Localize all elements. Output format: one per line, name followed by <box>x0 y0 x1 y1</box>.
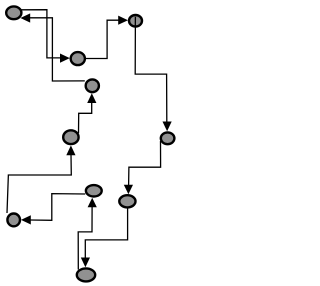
arrowhead into N5 <box>66 145 75 155</box>
arrowhead into N8 <box>124 185 133 194</box>
node N2 <box>129 15 142 27</box>
arrowhead into N2 <box>118 16 128 25</box>
node N9 <box>7 214 20 227</box>
node N6 <box>161 132 175 144</box>
node N8 <box>119 195 135 207</box>
wire edge N4->N1 <box>30 18 85 81</box>
wire edge N1->N3 <box>21 10 60 58</box>
arrowhead into N4 <box>87 93 96 103</box>
arrowhead into N11 <box>81 258 90 268</box>
arrowhead into N7 <box>88 198 97 208</box>
node N7 <box>86 185 102 196</box>
wire edge N5->N4 <box>79 103 92 134</box>
arrowhead into N6 <box>163 122 172 132</box>
arrowhead into N1 <box>20 13 30 22</box>
wire edge N7->N9 <box>31 194 86 221</box>
arrowhead into N9 <box>21 215 31 224</box>
wire edge N11->N7 <box>78 207 92 270</box>
node N4 <box>86 79 99 92</box>
node N3 <box>71 52 85 65</box>
node N1 <box>6 6 21 19</box>
arrowhead into N3 <box>60 54 70 63</box>
wire edge N6->N8 <box>129 141 161 185</box>
wire edge N8->N11 <box>85 208 127 258</box>
wire edge N2->N6 <box>135 17 167 122</box>
node N11 <box>77 268 95 281</box>
wire edge N9->N5 <box>7 155 71 213</box>
node N5 <box>63 130 78 144</box>
wire edge N3->N2 <box>86 20 119 58</box>
